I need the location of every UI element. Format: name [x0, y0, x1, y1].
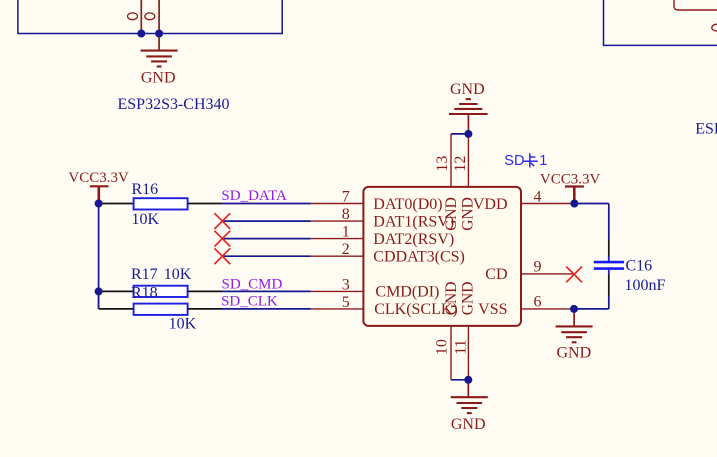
pin 10 [450, 326, 452, 380]
junction dot (node pin4/VCC) [570, 200, 578, 208]
sheet symbol ESP32S3-CH340 (top left box) [18, 0, 282, 34]
svg-text:CD: CD [485, 266, 507, 283]
wire (black segment below C16) [608, 275, 610, 297]
pin 1 (left stub) [311, 238, 364, 240]
wire (gnd to pin13) [451, 133, 468, 135]
junction dot [464, 130, 472, 138]
component outline (rounded corner, top right) [674, 0, 717, 10]
resistor R17 [134, 286, 188, 297]
power VCC3.3V (left) [90, 186, 109, 200]
junction dot (node VCC/R17) [95, 287, 103, 295]
wire (pin 2 stub wire) [222, 255, 311, 257]
svg-text:11: 11 [452, 339, 469, 354]
sheet symbol (top right box, partial) [604, 0, 717, 45]
svg-text:8: 8 [342, 206, 350, 223]
svg-text:4: 4 [534, 188, 542, 205]
wire (R17 to net label) [187, 290, 222, 292]
no-connect X (pin 8) [214, 213, 230, 229]
wire (rail corner to R18) [99, 308, 134, 310]
svg-text:7: 7 [342, 189, 350, 206]
junction dot [155, 30, 163, 38]
pin number 0 (rotated, partial at edge) [712, 24, 717, 31]
ground (inverted, above IC) [449, 99, 488, 134]
wire (cap branch vertical upper) [608, 204, 610, 240]
wire (vertical VCC rail) [98, 204, 100, 309]
wire (pin 8 stub wire) [222, 220, 311, 222]
junction dot (node VCC/R16) [95, 200, 103, 208]
svg-text:R16: R16 [132, 181, 159, 198]
wire (cap branch vertical lower) [608, 296, 610, 309]
svg-text:9: 9 [534, 259, 542, 276]
wire (sheet pin stub into box, left) [140, 0, 142, 34]
junction dot [464, 376, 472, 384]
no-connect X (pin 2) [214, 248, 230, 264]
pin 13 [450, 134, 452, 187]
svg-text:VSS: VSS [478, 301, 507, 318]
resistor R18 [134, 304, 188, 315]
svg-text:GND: GND [443, 197, 460, 231]
wire (VCC to R17) [99, 290, 134, 292]
svg-text:C16: C16 [626, 257, 653, 274]
svg-text:10K: 10K [132, 211, 160, 228]
pin number 0 (rotated, left stub) [128, 13, 138, 20]
svg-text:ESP32S3-CH340: ESP32S3-CH340 [695, 121, 717, 138]
pin 9 (right stub) [521, 273, 574, 275]
ground (below IC) [451, 380, 488, 413]
svg-text:SD_CMD: SD_CMD [222, 276, 283, 292]
svg-text:2: 2 [342, 241, 350, 258]
wire (R18 to net label) [187, 308, 222, 310]
svg-text:GND: GND [443, 282, 460, 316]
pin 2 (left stub) [311, 255, 364, 257]
no-connect X (pin 9) [566, 267, 582, 283]
svg-text:10K: 10K [169, 315, 197, 332]
svg-text:10K: 10K [164, 266, 192, 283]
svg-text:GND: GND [450, 81, 485, 98]
svg-text:GND: GND [556, 345, 591, 362]
pin 6 (right stub) [521, 308, 574, 310]
svg-text:CDDAT3(CS): CDDAT3(CS) [373, 249, 465, 266]
svg-text:1: 1 [342, 224, 350, 241]
svg-text:VDD: VDD [473, 196, 508, 213]
svg-text:12: 12 [452, 156, 469, 172]
wire (R16 to net label) [187, 203, 222, 205]
svg-text:VCC3.3V: VCC3.3V [540, 172, 601, 188]
svg-text:10: 10 [433, 339, 450, 355]
junction dot (node pin6/GND) [570, 305, 578, 313]
wire (pin10 to pin11 bottom) [451, 379, 468, 381]
svg-text:13: 13 [434, 156, 451, 172]
capacitor C16 [594, 257, 624, 275]
pin 3 (left stub) [311, 290, 364, 292]
wire (pin 1 stub wire) [222, 238, 311, 240]
svg-text:R18: R18 [131, 285, 158, 302]
svg-text:SD_DATA: SD_DATA [221, 188, 287, 204]
svg-text:SD: SD [504, 153, 524, 169]
pin 4 (right stub) [521, 203, 574, 205]
svg-text:DAT0(D0): DAT0(D0) [373, 196, 442, 213]
resistor R16 [134, 198, 188, 209]
svg-text:GND: GND [451, 416, 486, 433]
wire (net SD_CMD to pin 3) [222, 290, 311, 292]
pin 11 [467, 326, 469, 380]
IC U: SD card socket body [363, 187, 521, 326]
pin 12 [467, 134, 469, 187]
svg-text:1: 1 [539, 153, 547, 169]
svg-text:R17: R17 [131, 266, 158, 283]
svg-text:VCC3.3V: VCC3.3V [68, 170, 129, 186]
no-connect X (pin 1) [214, 231, 230, 247]
wire (sheet pin stub into box, right) [158, 0, 160, 34]
wire (VCC rail down to R18 row) [98, 291, 100, 309]
ground (below left box) [141, 34, 178, 67]
svg-text:GND: GND [459, 197, 476, 231]
wire (net SD_CLK to pin 5) [222, 308, 311, 310]
wire (pin 4 to cap branch) [574, 203, 609, 205]
svg-text:ESP32S3-CH340: ESP32S3-CH340 [118, 96, 230, 113]
ground (right of IC) [556, 309, 593, 342]
svg-text:GND: GND [141, 70, 176, 87]
svg-text:SD_CLK: SD_CLK [221, 294, 278, 310]
svg-text:6: 6 [534, 294, 542, 311]
svg-text:DAT2(RSV): DAT2(RSV) [373, 231, 454, 248]
pin 5 (left stub) [311, 308, 364, 310]
svg-text:3: 3 [342, 276, 350, 293]
wire (net SD_DATA to pin 7) [222, 203, 311, 205]
svg-text:100nF: 100nF [625, 277, 666, 294]
designator SD卡1 [504, 153, 547, 169]
junction dot [137, 30, 145, 38]
wire (cap branch to pin 6) [574, 308, 609, 310]
svg-text:GND: GND [459, 282, 476, 316]
svg-text:5: 5 [342, 294, 350, 311]
svg-text:CMD(DI): CMD(DI) [375, 284, 439, 301]
pin number 0 (rotated, right stub) [145, 13, 155, 20]
pin 8 (left stub) [311, 220, 364, 222]
power VCC3.3V (right) [565, 187, 584, 201]
pin 7 (left stub) [311, 203, 364, 205]
wire (black segment above C16) [608, 240, 610, 257]
wire (VCC to R16) [99, 203, 134, 205]
